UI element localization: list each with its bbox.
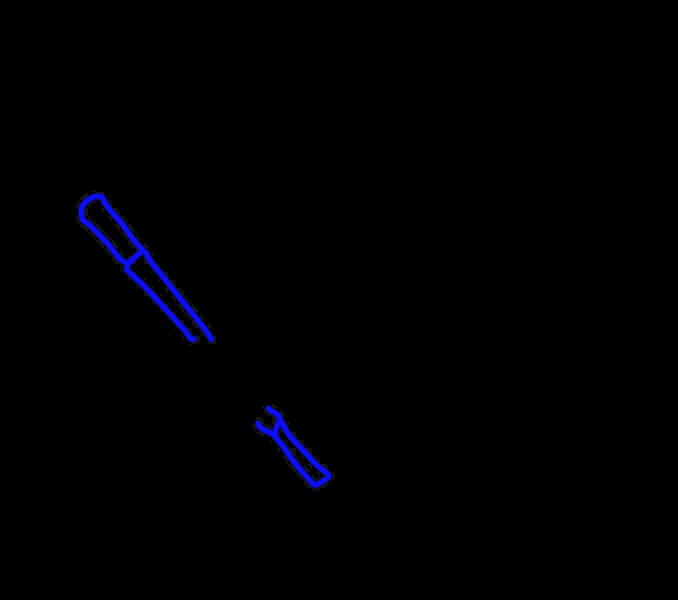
chroma bleed [81,196,328,485]
wire: left parallel line with jog and hooked tip [127,264,194,339]
wire: right parallel line [146,253,212,340]
wire: top capsule outline (loop with slanted cap) [81,196,143,264]
artifact halo [81,196,328,485]
wire: bottom capsule outline with pronged open end [258,409,329,485]
wire: bottom capsule inner cap [275,420,281,436]
